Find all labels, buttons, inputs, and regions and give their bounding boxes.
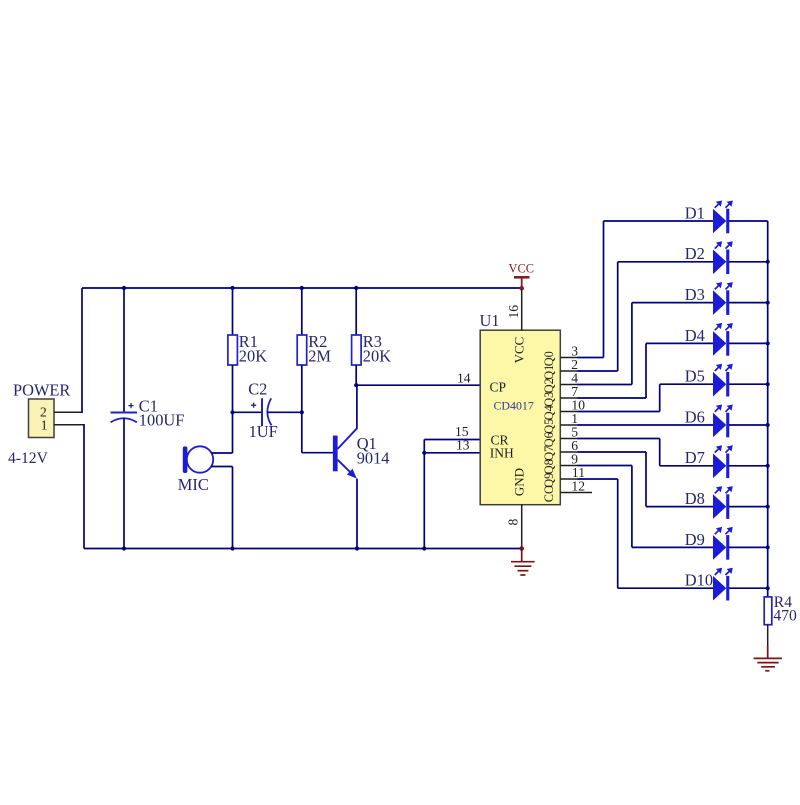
op-amp U1 CD4017 body: [480, 330, 560, 505]
node junction (124,548.5): [122, 546, 126, 550]
connector J1 body: [29, 399, 55, 438]
node bus-D6: [766, 423, 770, 427]
node junction (232.5,412.3): [230, 410, 234, 414]
wire: D4 cathode to bus: [729, 342, 768, 344]
wire: R4 to ground: [767, 625, 769, 648]
LED D7: [713, 445, 733, 478]
svg-text:1: 1: [41, 417, 48, 432]
svg-text:D9: D9: [685, 530, 705, 549]
wire: pin 4 to D3: [578, 303, 714, 385]
wire: pin 2 to D2: [578, 262, 714, 371]
transistor Q1: [333, 428, 357, 478]
svg-text:Q4: Q4: [542, 405, 556, 420]
svg-text:D4: D4: [685, 326, 705, 345]
svg-text:CD4017: CD4017: [494, 398, 534, 412]
node junction (357,548.5): [355, 546, 359, 550]
wire: emitter to ground rail: [356, 479, 358, 549]
capacitor C2: [251, 398, 272, 426]
pin 3 stub: [560, 357, 577, 359]
pin 4 stub: [560, 384, 577, 386]
label R1 20K: [239, 332, 267, 365]
svg-text:470: 470: [773, 608, 797, 625]
pin 8 GND wire: [521, 505, 523, 549]
node bus-D10: [766, 586, 770, 590]
LED D3: [713, 282, 733, 315]
power VCC symbol: [509, 262, 534, 291]
svg-text:U1: U1: [480, 311, 500, 330]
wire: D8 cathode to bus: [729, 506, 768, 508]
svg-text:CP: CP: [490, 380, 507, 395]
svg-text:Q0: Q0: [542, 351, 556, 366]
svg-text:Q3: Q3: [542, 392, 556, 407]
wire: MIC top terminal: [212, 452, 233, 454]
svg-text:12: 12: [571, 479, 585, 494]
label R3 20K: [363, 332, 391, 365]
pin 6 stub: [560, 451, 577, 453]
svg-text:C2: C2: [248, 380, 267, 399]
pin 10 stub: [560, 411, 577, 413]
label Q1 9014: [357, 434, 390, 467]
wire: D9 cathode to bus: [729, 546, 768, 548]
resistor R4: [764, 597, 772, 625]
node junction (424.3,548.5): [422, 546, 426, 550]
microphone MIC: [183, 446, 213, 473]
LED D6: [713, 405, 733, 438]
wire: LED cathode bus: [767, 221, 769, 597]
node bus-D4: [766, 341, 770, 345]
LED D9: [713, 527, 733, 560]
wire: R2 top lead: [301, 288, 303, 335]
svg-text:GND: GND: [512, 468, 527, 496]
wire: collector vertical: [356, 385, 358, 429]
wire: pin 1 to D6: [578, 424, 714, 426]
svg-text:D5: D5: [685, 367, 705, 386]
svg-text:2M: 2M: [308, 346, 331, 365]
svg-text:D8: D8: [685, 489, 705, 508]
node junction (301.8,288): [300, 286, 304, 290]
svg-text:POWER: POWER: [13, 381, 70, 400]
svg-text:Q2: Q2: [542, 378, 556, 393]
pin 16 VCC wire: [521, 290, 523, 330]
svg-text:1UF: 1UF: [249, 422, 278, 441]
node bus-D8: [766, 505, 770, 509]
node junction (232.5,288): [230, 286, 234, 290]
LED D1: [713, 201, 733, 234]
wire: pin2 to VCC rail: [54, 288, 82, 413]
wire: pin 6 to D8: [578, 452, 714, 507]
wire: INH pin13: [424, 452, 480, 454]
LED D8: [713, 486, 733, 519]
wire: CR pin15: [424, 439, 480, 441]
node junction (356.2,288): [354, 286, 358, 290]
node junction (424.3,452.8): [422, 451, 426, 455]
svg-text:20K: 20K: [363, 346, 391, 365]
LED D4: [713, 323, 733, 356]
svg-text:VCC: VCC: [512, 337, 527, 364]
node junction (356.2,385.2): [354, 383, 358, 387]
svg-text:Q5: Q5: [542, 419, 556, 434]
LED D5: [713, 364, 733, 397]
wire: pin 11 to D10: [578, 479, 714, 588]
svg-text:Q6: Q6: [542, 432, 556, 447]
node bus-D7: [766, 464, 770, 468]
svg-text:D7: D7: [685, 448, 705, 467]
wire: D10 cathode to bus: [729, 587, 768, 589]
node bus-D3: [766, 301, 770, 305]
node junction (301.8,412.3): [300, 410, 304, 414]
wire: MIC bottom terminal to ground rail: [211, 467, 232, 549]
wire: top VCC rail: [82, 287, 522, 289]
svg-text:Q7: Q7: [542, 446, 556, 461]
svg-text:VCC: VCC: [509, 262, 534, 276]
wire: R2 bottom to Q1 base: [302, 365, 333, 453]
capacitor C1: [111, 403, 138, 422]
wire: pin 10 to D5: [578, 384, 714, 411]
pin 11 stub: [560, 478, 577, 480]
wire: D2 cathode to bus: [729, 261, 768, 263]
svg-text:D10: D10: [685, 571, 713, 590]
svg-text:MIC: MIC: [178, 475, 209, 494]
wire: pin 3 to D1: [578, 221, 714, 358]
wire: D6 cathode to bus: [729, 424, 768, 426]
wire: bottom ground rail: [84, 548, 522, 550]
wire: R1 node to C2: [233, 411, 262, 413]
wire: node to CP pin14: [356, 384, 480, 386]
label C2 1UF: [248, 380, 278, 441]
svg-text:INH: INH: [490, 445, 514, 460]
svg-text:14: 14: [457, 371, 471, 386]
wire: C1 bottom lead: [123, 418, 125, 549]
node junction (232.5,548.5): [230, 546, 234, 550]
label R2 2M: [308, 332, 331, 365]
resistor R3: [352, 335, 362, 365]
wire: R3 top lead: [355, 288, 357, 335]
svg-text:CO: CO: [542, 485, 556, 502]
resistor R2: [297, 335, 307, 365]
svg-text:100UF: 100UF: [139, 410, 185, 429]
wire: C2 to R2 node: [267, 411, 302, 413]
wire: pin 9 to D9: [578, 466, 714, 548]
svg-text:13: 13: [456, 438, 470, 453]
wire: D7 cathode to bus: [729, 465, 768, 467]
ground at IC pin 8: [511, 546, 535, 575]
LED D10: [713, 568, 733, 601]
svg-text:D6: D6: [685, 407, 705, 426]
wire: CR/INH to ground rail: [423, 440, 425, 549]
node bus-D9: [766, 545, 770, 549]
pin 1 stub: [560, 424, 577, 426]
wire: D3 cathode to bus: [729, 302, 768, 304]
LED D2: [713, 241, 733, 274]
node junction (124,288): [122, 286, 126, 290]
wire: R3 bottom to node: [355, 365, 357, 385]
svg-text:4-12V: 4-12V: [8, 450, 49, 467]
pin 5 stub: [560, 438, 577, 440]
svg-text:9014: 9014: [357, 448, 390, 467]
wire: R1 bottom to C2 node to MIC: [232, 365, 234, 453]
node bus-D5: [766, 382, 770, 386]
wire: D1 cathode to bus: [729, 220, 768, 222]
wire: C1 top lead: [123, 288, 125, 412]
svg-text:16: 16: [506, 305, 521, 319]
resistor R1: [228, 335, 238, 365]
node bus-D2: [766, 260, 770, 264]
wire: pin 5 to D7: [578, 439, 714, 466]
svg-text:D2: D2: [685, 244, 705, 263]
svg-text:8: 8: [506, 519, 521, 526]
label R4 470: [773, 594, 797, 625]
pin 9 stub: [560, 465, 577, 467]
pin 2 stub: [560, 370, 577, 372]
label C1 100UF: [139, 396, 185, 429]
svg-text:D3: D3: [685, 285, 705, 304]
svg-text:Q8: Q8: [542, 459, 556, 474]
svg-text:D1: D1: [685, 203, 705, 222]
wire: D5 cathode to bus: [729, 383, 768, 385]
pin 12 stub: [560, 492, 592, 494]
pin 7 stub: [560, 397, 577, 399]
svg-text:Q1: Q1: [542, 365, 556, 380]
wire: pin 7 to D4: [578, 343, 714, 398]
ground under R4: [754, 646, 782, 671]
wire: R1 top lead: [232, 288, 234, 335]
wire: pin1 to ground rail: [54, 424, 84, 549]
svg-text:20K: 20K: [239, 346, 267, 365]
